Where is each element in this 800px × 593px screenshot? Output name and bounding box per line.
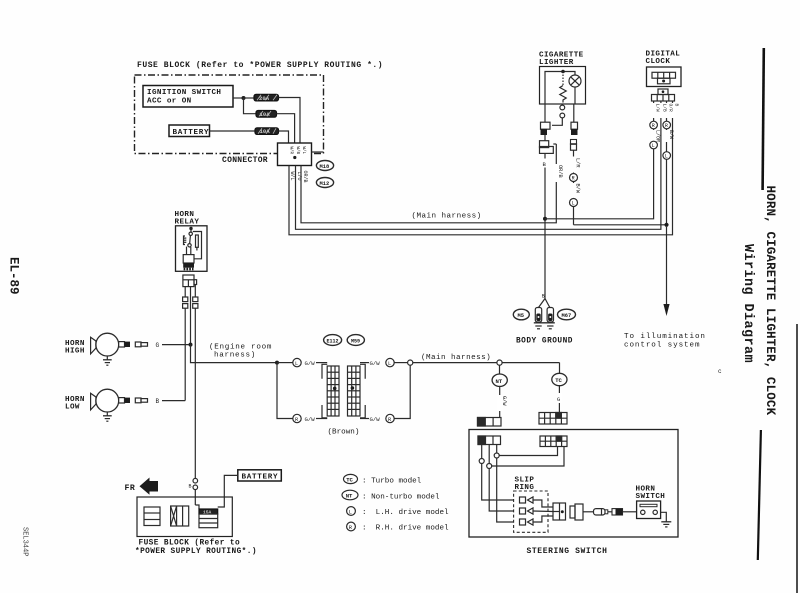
right branch vertical <box>394 365 410 418</box>
junction dot <box>242 96 246 100</box>
lighter lamp <box>569 75 581 87</box>
svg-text:FUSE BLOCK (Refer to: FUSE BLOCK (Refer to <box>139 540 241 548</box>
connector box <box>278 143 312 166</box>
svg-text:W/B: W/B <box>295 147 300 155</box>
svg-text:G/W: G/W <box>501 396 507 406</box>
steering right connector wire B <box>492 447 564 467</box>
svg-text:B: B <box>156 398 160 405</box>
wire to fuse link <box>608 511 612 513</box>
horn switch contact bar <box>640 504 657 506</box>
svg-text:R: R <box>388 417 391 423</box>
slip ring contact 2 <box>520 508 526 514</box>
svg-text:W/L: W/L <box>289 172 295 181</box>
svg-text:BODY GROUND: BODY GROUND <box>516 338 573 346</box>
horn high junction dot <box>189 343 193 347</box>
steering connector left inside <box>478 436 501 445</box>
fuse block box bottom <box>137 497 232 537</box>
left branch vertical <box>277 363 293 419</box>
horn relay box <box>176 226 208 271</box>
fusible link 15A <box>199 509 218 514</box>
svg-text:BATTERY: BATTERY <box>242 474 279 482</box>
relay coil <box>184 236 186 245</box>
svg-text:L: L <box>665 154 668 160</box>
junction dot B harness <box>543 217 547 221</box>
svg-text:R: R <box>295 417 298 423</box>
svg-text:OR/B: OR/B <box>557 165 563 178</box>
wire fuse2 to connector <box>277 114 295 143</box>
clock wire3 circle R <box>663 121 671 129</box>
horn high wire <box>162 344 189 346</box>
svg-text:FUSE BLOCK (Refer to *POWER SU: FUSE BLOCK (Refer to *POWER SUPPLY ROUTI… <box>137 61 383 70</box>
svg-text:*POWER SUPPLY ROUTING*.): *POWER SUPPLY ROUTING*.) <box>135 548 257 556</box>
svg-text:(Brown): (Brown) <box>328 429 360 437</box>
svg-text:M67: M67 <box>562 313 572 319</box>
clock lower connector <box>658 89 668 95</box>
M59 brackets <box>360 364 365 378</box>
horn switch ground <box>661 512 667 522</box>
svg-text:OR/B: OR/B <box>302 171 308 183</box>
svg-text:G: G <box>557 397 560 403</box>
engine harness wire to L circle <box>277 362 293 364</box>
battery box bottom <box>238 470 281 481</box>
fuse 10A acc <box>256 111 277 118</box>
horn high inline connector <box>135 342 141 347</box>
FR arrow <box>140 478 150 495</box>
illumination arrow <box>666 227 668 306</box>
circle R left <box>293 414 301 422</box>
clock pin labels <box>650 103 676 118</box>
main harness line to steering <box>413 362 497 364</box>
battery box top <box>169 125 210 137</box>
left branch junction dot <box>275 361 279 365</box>
lighter B wire <box>544 135 546 141</box>
relay inline connector 1 <box>183 297 188 302</box>
svg-text:W/R: W/R <box>289 147 294 155</box>
svg-text:: Non-turbo model: : Non-turbo model <box>362 493 440 501</box>
wire fuse3 to connector <box>279 131 289 143</box>
svg-text:B/W: B/W <box>668 130 674 139</box>
M5 oval <box>513 309 529 320</box>
NT tap junction circle <box>497 360 502 365</box>
svg-text:G/W: G/W <box>305 360 316 367</box>
horn high terminal <box>119 342 125 347</box>
svg-text:(Main harness): (Main harness) <box>421 354 491 362</box>
inline component <box>612 509 623 515</box>
svg-text:ACC or ON: ACC or ON <box>147 98 192 106</box>
fuse 10A battery <box>255 128 279 135</box>
label OR/B <box>553 164 560 182</box>
lighter connector block 2 <box>540 141 549 148</box>
horn low wire <box>162 400 185 402</box>
body ground split <box>539 292 546 308</box>
clock inner connector <box>652 72 676 78</box>
TC branch <box>559 363 561 374</box>
svg-text:NT: NT <box>496 378 503 385</box>
steering pin 1 <box>481 445 483 459</box>
relay pins <box>184 287 186 297</box>
relay body block <box>183 255 194 263</box>
right edge rule <box>796 324 798 593</box>
circle R lighter <box>570 174 578 182</box>
lighter connector block 1 <box>544 104 546 122</box>
svg-text:L: L <box>388 361 391 367</box>
body ground symbols <box>534 322 555 324</box>
right branch junction circle <box>408 360 413 365</box>
slip ring contact 1 <box>520 497 526 503</box>
svg-text:CONNECTOR: CONNECTOR <box>222 156 268 165</box>
svg-text:EL-89: EL-89 <box>7 257 21 295</box>
svg-text:W/L: W/L <box>301 147 306 155</box>
harness connector left outside <box>478 418 502 427</box>
connector output wire B <box>296 101 661 229</box>
wire fuse1 to connector <box>279 98 301 144</box>
harness connector right outside <box>539 413 567 425</box>
harness line B to clock <box>545 101 654 219</box>
svg-text:IGNITION SWITCH: IGNITION SWITCH <box>147 89 221 97</box>
svg-text:BATTERY: BATTERY <box>173 129 210 137</box>
svg-text:SEL344P: SEL344P <box>21 527 29 556</box>
relay contact <box>190 229 192 233</box>
svg-text:harness): harness) <box>214 352 256 360</box>
lighter junction dot <box>561 70 565 74</box>
M67 oval <box>558 309 576 320</box>
fuse element 1 <box>144 507 160 526</box>
label L/R <box>570 157 577 173</box>
svg-text:L: L <box>295 361 298 367</box>
svg-text:: Turbo model: : Turbo model <box>362 478 422 486</box>
svg-text:G/W: G/W <box>370 360 381 367</box>
svg-text:M12: M12 <box>320 181 330 187</box>
svg-text:STEERING SWITCH: STEERING SWITCH <box>527 547 608 556</box>
horn low ground <box>106 412 108 416</box>
horn high trumpet <box>91 337 96 354</box>
horn switch box <box>637 501 661 519</box>
label G/W NT <box>497 395 504 411</box>
circle L left <box>293 358 301 366</box>
lighter illumination wire <box>573 150 575 225</box>
fuse block dash-dot box <box>135 75 324 154</box>
svg-text:O/R: O/R <box>668 104 674 113</box>
svg-text:c: c <box>718 368 722 375</box>
lighter heater element <box>562 72 564 86</box>
svg-text:HORN, CIGARETTE LIGHTER, CLOCK: HORN, CIGARETTE LIGHTER, CLOCK <box>763 186 777 416</box>
svg-text:M5: M5 <box>518 313 524 319</box>
relay output verticals <box>184 308 186 400</box>
fuse 20A <box>254 94 279 101</box>
ignition switch box <box>143 86 233 108</box>
horn low body <box>96 389 119 412</box>
legend R <box>347 522 356 531</box>
svg-text:(Engine room: (Engine room <box>209 344 272 352</box>
connector exit wire right <box>312 151 324 153</box>
svg-text:CLOCK: CLOCK <box>646 58 671 66</box>
wire to horn switch <box>623 511 637 513</box>
svg-text:G: G <box>156 342 160 349</box>
M59 connector grid <box>348 366 361 416</box>
svg-text:L/R: L/R <box>575 158 581 168</box>
svg-text:B: B <box>674 104 680 107</box>
digital clock box <box>647 67 682 87</box>
bullet connector <box>594 509 606 515</box>
slip ring dashed box <box>514 491 548 532</box>
svg-text:R: R <box>652 123 655 129</box>
horn switch terminals <box>641 510 645 514</box>
horn high body <box>96 333 119 356</box>
svg-text:: L.H. drive model: : L.H. drive model <box>362 509 449 517</box>
svg-text:Wiring Diagram: Wiring Diagram <box>740 244 755 363</box>
relay top dot <box>189 227 192 230</box>
label B <box>542 159 549 168</box>
svg-text:HIGH: HIGH <box>65 348 85 356</box>
steering connector right inside <box>540 436 567 447</box>
svg-text:TC: TC <box>555 377 562 384</box>
svg-text:FR: FR <box>125 484 136 493</box>
fuse element 2 <box>171 506 189 526</box>
relay internal wires <box>186 247 188 255</box>
NT oval <box>492 374 507 386</box>
svg-text:To illumination: To illumination <box>624 333 706 341</box>
M18 oval <box>316 161 333 171</box>
relay connector <box>183 275 194 287</box>
wire junction down to fuse2 <box>244 98 257 114</box>
svg-text:L/W: L/W <box>655 104 661 113</box>
M59 right top wire <box>360 362 369 364</box>
slip ring contact 3 <box>520 519 526 525</box>
label L/OR <box>570 183 577 198</box>
svg-text:L: L <box>652 143 655 149</box>
clock wire1 circle R <box>650 121 658 129</box>
svg-text:R: R <box>665 123 668 129</box>
lighter illumination connectors <box>571 122 578 129</box>
steering pin 2 <box>488 445 490 464</box>
svg-text:TC: TC <box>346 477 353 484</box>
M59 right bottom wire <box>386 414 394 422</box>
connector inner dot <box>293 156 296 159</box>
E112 connector grid <box>327 366 339 416</box>
svg-text:G/W: G/W <box>305 416 316 423</box>
svg-text:M18: M18 <box>320 164 330 170</box>
svg-text:R: R <box>349 525 353 531</box>
svg-text:NT: NT <box>346 493 353 500</box>
svg-text:control system: control system <box>624 341 700 349</box>
illumination junction dot <box>664 223 668 227</box>
M59 oval <box>347 335 364 346</box>
horn high ground <box>106 356 108 360</box>
lighter inner top wire <box>545 72 575 105</box>
svg-text:SWITCH: SWITCH <box>636 493 666 501</box>
E112 brackets <box>322 364 327 378</box>
wire battery to fuse3 <box>210 130 256 132</box>
relay inline connector 2 <box>193 297 198 302</box>
label G TC <box>556 393 562 403</box>
connector output wire C power <box>301 144 556 223</box>
horn low trumpet <box>91 393 96 410</box>
svg-text:R: R <box>572 176 575 182</box>
E112 oval <box>324 335 342 346</box>
svg-text:L/B: L/B <box>661 104 667 113</box>
steering column connector 2 <box>570 506 575 518</box>
horn low terminal <box>119 398 125 403</box>
circle L lighter <box>570 199 578 207</box>
battery wire <box>218 475 238 507</box>
steering right connector wire A <box>499 447 557 456</box>
svg-text:LOW: LOW <box>65 404 80 412</box>
svg-text:G/W: G/W <box>370 416 381 423</box>
svg-text:: R.H. drive model: : R.H. drive model <box>362 525 449 533</box>
horn low inline connector <box>135 398 141 403</box>
lighter element connector circles <box>560 105 565 110</box>
engine harness line from relay <box>191 345 278 363</box>
steering switch box <box>469 430 678 538</box>
legend NT <box>342 490 358 500</box>
M12 oval <box>316 178 333 188</box>
connector output wire A <box>289 101 673 235</box>
svg-text:B: B <box>189 484 192 490</box>
body ground connector left <box>535 308 541 323</box>
body ground connector right <box>547 308 553 323</box>
TC oval <box>552 373 567 385</box>
svg-text:L: L <box>349 510 352 516</box>
relay resistor bar <box>196 235 199 247</box>
NT branch <box>499 365 501 374</box>
legend TC <box>344 474 358 483</box>
svg-text:E112: E112 <box>327 338 339 344</box>
cigarette lighter box <box>540 67 586 105</box>
svg-text:(Main harness): (Main harness) <box>412 213 482 221</box>
wire ignition to junction <box>233 97 244 99</box>
right title rule lower <box>758 430 761 560</box>
svg-text:M59: M59 <box>351 338 360 344</box>
svg-text:L/OR: L/OR <box>655 130 661 142</box>
right title rule upper <box>763 48 764 190</box>
wire junction to fuse1 <box>244 97 255 99</box>
relay feed disconnect <box>193 478 198 483</box>
svg-text:B/W: B/W <box>575 184 581 194</box>
steering pin 3 <box>496 445 498 453</box>
wire to bullet <box>583 511 594 513</box>
harness illumination line <box>574 101 667 225</box>
legend L <box>347 507 356 516</box>
steering column connector 1 <box>553 503 566 520</box>
svg-text:L: L <box>572 201 575 207</box>
